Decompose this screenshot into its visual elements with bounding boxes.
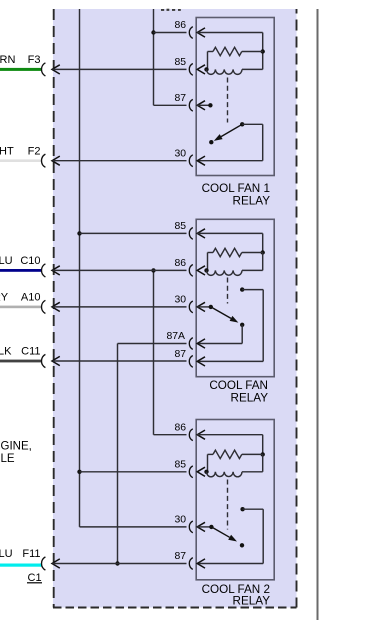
net B junction dot at relay2 pin85: [77, 231, 81, 235]
net A junction dot at relay1 pin86: [151, 30, 155, 34]
svg-text:87: 87: [174, 551, 186, 562]
svg-text:F3: F3: [28, 54, 41, 66]
wire F11 colored lead: [0, 564, 42, 567]
svg-text:85: 85: [174, 57, 186, 68]
arrow F2: [52, 156, 60, 165]
cool fan 1 relay box U1: [196, 18, 274, 176]
relay3 pin 86 wire: [197, 434, 263, 436]
relay1 resistor junction dot: [261, 49, 265, 53]
relay2 pin 87 connector: [189, 356, 192, 368]
relay1 actuator dashed line: [227, 78, 229, 123]
wire F3 colored lead: [0, 68, 42, 71]
relay3 pin 87 arrow: [197, 559, 205, 568]
svg-text:F2: F2: [28, 145, 41, 157]
arrow C10: [52, 266, 60, 275]
relay2 pin 30 arrow: [197, 302, 205, 311]
relay2 switch arm: [211, 307, 231, 319]
relay3 contact 87 wire path: [243, 508, 264, 510]
svg-text:85: 85: [174, 460, 186, 471]
wire C10 colored lead: [0, 269, 42, 272]
wire C11 colored lead: [0, 360, 42, 363]
relay2 contact 87 wire path: [242, 289, 263, 291]
svg-text:86: 86: [174, 422, 186, 433]
relay2 pin 87A connector: [189, 338, 192, 350]
relay3 upper contact dot 87: [240, 507, 244, 511]
svg-text:LU: LU: [0, 255, 13, 267]
arrow A10: [52, 302, 60, 311]
relay1 pin 86 arrow: [197, 28, 205, 37]
net C junction dot on relay3 pin87 wire: [115, 561, 119, 565]
relay3 resistor left leg: [207, 454, 209, 471]
svg-text:RELAY: RELAY: [233, 195, 271, 208]
wire relay2 pin85 to net B: [80, 232, 187, 234]
relay2 pin 30 connector: [189, 301, 192, 313]
relay3 pin 85 arrow: [197, 467, 205, 476]
arrow F3: [52, 65, 60, 74]
wire A10 colored lead: [0, 306, 42, 309]
relay2 actuator dashed line: [227, 278, 229, 304]
relay3 switch pivot dot: [209, 525, 213, 529]
cool fan relay box U2: [196, 219, 274, 376]
svg-text:87A: 87A: [167, 331, 186, 342]
net B corner to relay3 pin30 wire: [80, 526, 187, 528]
svg-text:GINE,: GINE,: [1, 441, 32, 453]
wire relay1 pin86 from net A: [154, 32, 187, 34]
relay1 switch arm: [221, 124, 242, 136]
connector arc C11: [41, 354, 45, 367]
relay1 coil L1: [207, 69, 243, 74]
arrow F11: [52, 559, 60, 568]
connector arc F3: [42, 63, 46, 76]
wire C10 into box: [53, 269, 187, 271]
net B junction dot at relay3 pin85: [77, 470, 81, 474]
wire F11 into box: [53, 563, 187, 565]
svg-text:A10: A10: [21, 292, 41, 304]
svg-text:LK: LK: [0, 346, 12, 358]
relay2 resistor R: [208, 252, 214, 254]
svg-text:C11: C11: [21, 346, 40, 358]
svg-text:87: 87: [174, 93, 186, 104]
relay2 resistor junction dot: [261, 250, 265, 254]
relay1 resistor R (coil suppression): [208, 51, 214, 53]
relay3 pin 85 connector: [189, 466, 193, 478]
relay1 pin 87 connector: [189, 99, 193, 111]
vertical gray divider line (right of box): [317, 9, 319, 620]
svg-text:F11: F11: [22, 548, 40, 560]
relay3 pin 30 arrow: [197, 522, 205, 531]
wire C11 into box: [53, 360, 187, 362]
wire A10 into box: [53, 306, 187, 308]
wire relay3 pin85 to net B: [80, 471, 187, 473]
net A lower junction dot at relay2 pin86: [151, 268, 155, 272]
relay2 switch pivot dot: [209, 305, 213, 309]
PCM / underhood fuse block dashed boundary box (lavender): [53, 9, 297, 608]
relay3 switch contact dot: [240, 543, 244, 547]
svg-text:RELAY: RELAY: [231, 392, 269, 405]
connector arc A10: [41, 300, 45, 313]
svg-text:30: 30: [174, 148, 186, 159]
svg-text:85: 85: [174, 221, 186, 232]
net A corner to relay1 pin87 wire: [154, 104, 187, 106]
relay2 pin 87A arrow: [197, 339, 205, 348]
relay3 pin 30 wire to pivot: [197, 526, 211, 528]
connector arc C10: [41, 264, 45, 277]
svg-text:30: 30: [174, 295, 186, 306]
relay2 coil node dot: [204, 268, 208, 272]
relay3 pin 87 connector: [189, 558, 193, 570]
wire F3 into box: [53, 68, 187, 70]
relay1 pin 87 arrow: [197, 101, 205, 110]
relay2 pin 86 connector: [189, 265, 192, 277]
svg-text:RN: RN: [0, 54, 15, 66]
relay2 pin 85 connector: [189, 228, 193, 240]
svg-text:COOL FAN 1: COOL FAN 1: [202, 182, 270, 195]
relay3 resistor junction dot: [261, 452, 265, 456]
svg-text:C10: C10: [20, 255, 40, 267]
svg-text:RY: RY: [0, 292, 9, 304]
relay2 upper contact dot 87: [240, 287, 244, 291]
svg-text:30: 30: [174, 515, 186, 526]
relay1 pivot to pin30 wire: [242, 123, 263, 125]
svg-text:86: 86: [174, 20, 186, 31]
relay1 pin 85 arrow: [197, 65, 205, 74]
relay3 pin 30 connector: [189, 521, 192, 533]
relay1 pin 86 connector: [189, 27, 193, 39]
svg-text:LU: LU: [0, 548, 13, 560]
cool fan 2 relay box U3: [196, 420, 274, 580]
relay3 pin 86 connector: [189, 429, 193, 441]
relay2 coil L1: [207, 270, 243, 275]
arrow C11: [52, 356, 60, 365]
relay1 resistor left leg: [207, 52, 209, 70]
cropped label remnant at top of wire to relay pins 86/87: [161, 9, 181, 11]
relay1 coil node dot: [204, 67, 208, 71]
svg-text:COOL FAN: COOL FAN: [209, 379, 268, 392]
relay2 pin 85 arrow: [197, 229, 205, 238]
svg-text:86: 86: [174, 258, 186, 269]
net C corner to relay2 87A wire: [118, 343, 187, 345]
relay1 switch contact dot: [209, 140, 213, 144]
connector arc F2: [41, 154, 45, 167]
svg-text:LE: LE: [1, 453, 15, 465]
wire F2 colored lead: [0, 159, 42, 162]
wire vertical net A upper (to top of page): [153, 9, 155, 105]
wire vertical net B (to top of page): [79, 9, 81, 527]
svg-text:RELAY: RELAY: [233, 595, 271, 608]
dashed border left edge: [53, 9, 55, 608]
relay2 pin 86 arrow: [197, 266, 205, 275]
relay2 pin 85 wire: [197, 232, 263, 234]
svg-text:87: 87: [174, 349, 186, 360]
relay2 contact to 87A wire: [241, 325, 243, 344]
relay1 switch pivot dot: [240, 122, 244, 126]
relay1 pin 87 stub wire: [197, 104, 210, 106]
wire vertical net A lower (relay2 pin86 to relay3 pin86): [153, 270, 155, 434]
connector arc F11: [42, 557, 46, 570]
svg-text:HT: HT: [0, 145, 14, 157]
relay1 pin 86 wire to coil top: [197, 32, 263, 34]
relay2 pin 87 arrow: [197, 357, 205, 366]
relay3 switch arm: [211, 527, 229, 537]
wire vertical net C (relay2 87A down to relay3 pin87 row): [117, 344, 119, 564]
relay3 resistor R: [208, 453, 214, 455]
relay1 pin 30 connector: [189, 155, 193, 167]
dashed border right edge: [296, 9, 298, 608]
net A lower corner to relay3 pin86 wire: [154, 434, 187, 436]
relay2 resistor left leg: [207, 253, 209, 271]
relay1 pin 85 connector: [189, 64, 193, 76]
relay2 switch contact dot 87A: [240, 323, 244, 327]
wire F2 into box: [53, 160, 187, 162]
relay3 actuator dashed line: [227, 480, 229, 530]
relay3 coil L1: [207, 472, 243, 477]
relay1 pin 30 arrow: [197, 156, 205, 165]
relay3 coil node dot: [204, 470, 208, 474]
relay3 pin 86 arrow: [197, 430, 205, 439]
relay2 pin 30 wire to pivot: [197, 306, 211, 308]
dashed border bottom edge: [53, 607, 297, 609]
